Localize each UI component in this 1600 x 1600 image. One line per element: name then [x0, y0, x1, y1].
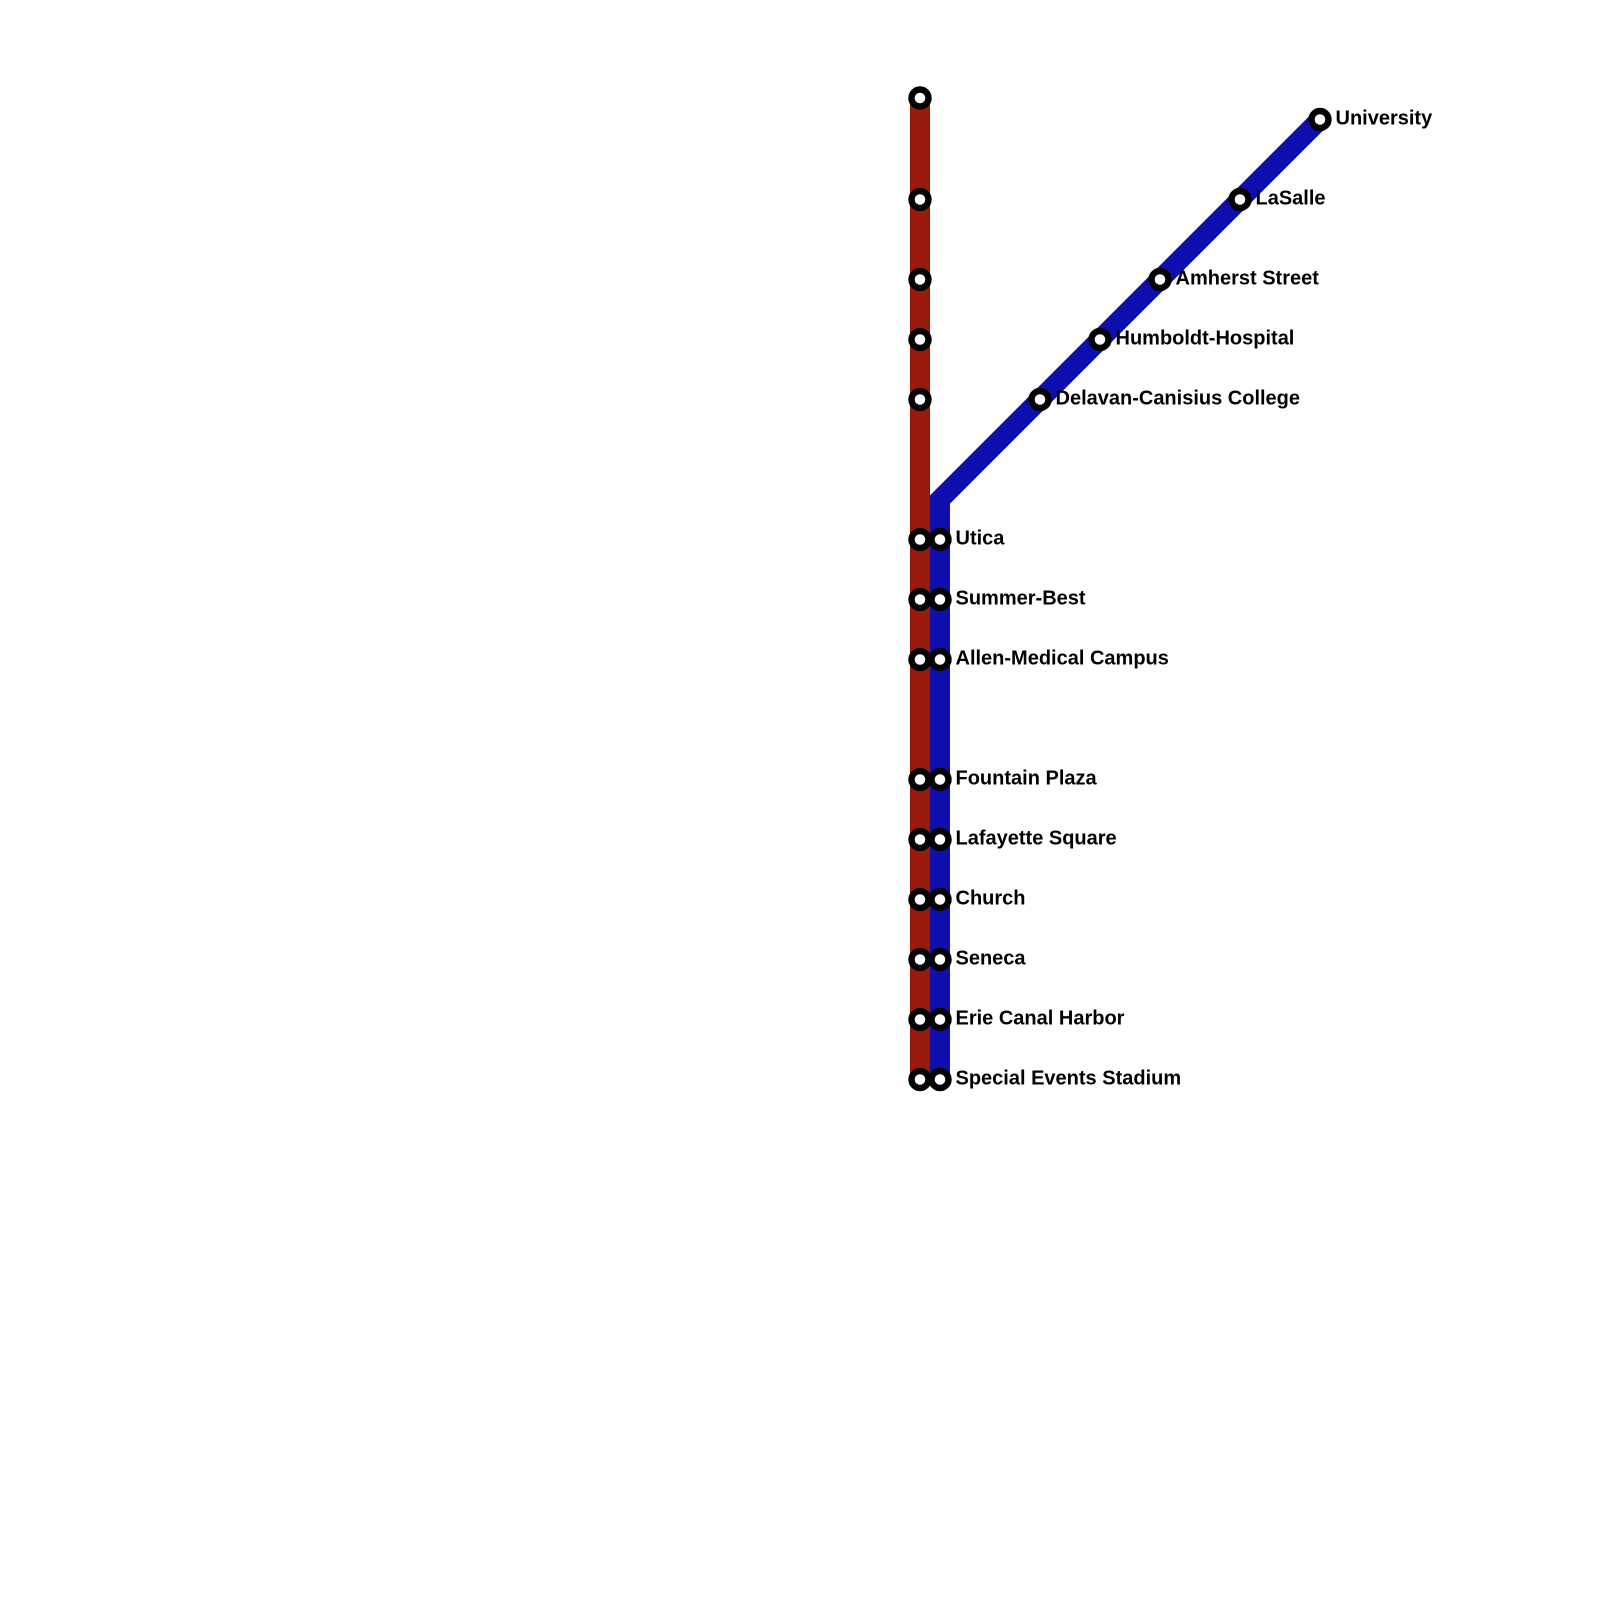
- svg-text:Lafayette Square: Lafayette Square: [956, 828, 1117, 850]
- svg-text:Delavan-Canisius College: Delavan-Canisius College: [1056, 388, 1301, 410]
- svg-text:Special Events Stadium: Special Events Stadium: [956, 1068, 1182, 1090]
- svg-text:LaSalle: LaSalle: [1256, 188, 1326, 210]
- svg-text:Allen-Medical Campus: Allen-Medical Campus: [956, 648, 1169, 670]
- svg-text:Humboldt-Hospital: Humboldt-Hospital: [1116, 328, 1295, 350]
- svg-text:Erie Canal Harbor: Erie Canal Harbor: [956, 1008, 1125, 1030]
- svg-text:Utica: Utica: [956, 528, 1006, 550]
- svg-text:Seneca: Seneca: [956, 948, 1027, 970]
- svg-text:Church: Church: [956, 888, 1026, 910]
- svg-text:Amherst Street: Amherst Street: [1176, 268, 1320, 290]
- svg-text:Fountain Plaza: Fountain Plaza: [956, 768, 1098, 790]
- svg-text:University: University: [1336, 108, 1434, 130]
- svg-text:Summer-Best: Summer-Best: [956, 588, 1086, 610]
